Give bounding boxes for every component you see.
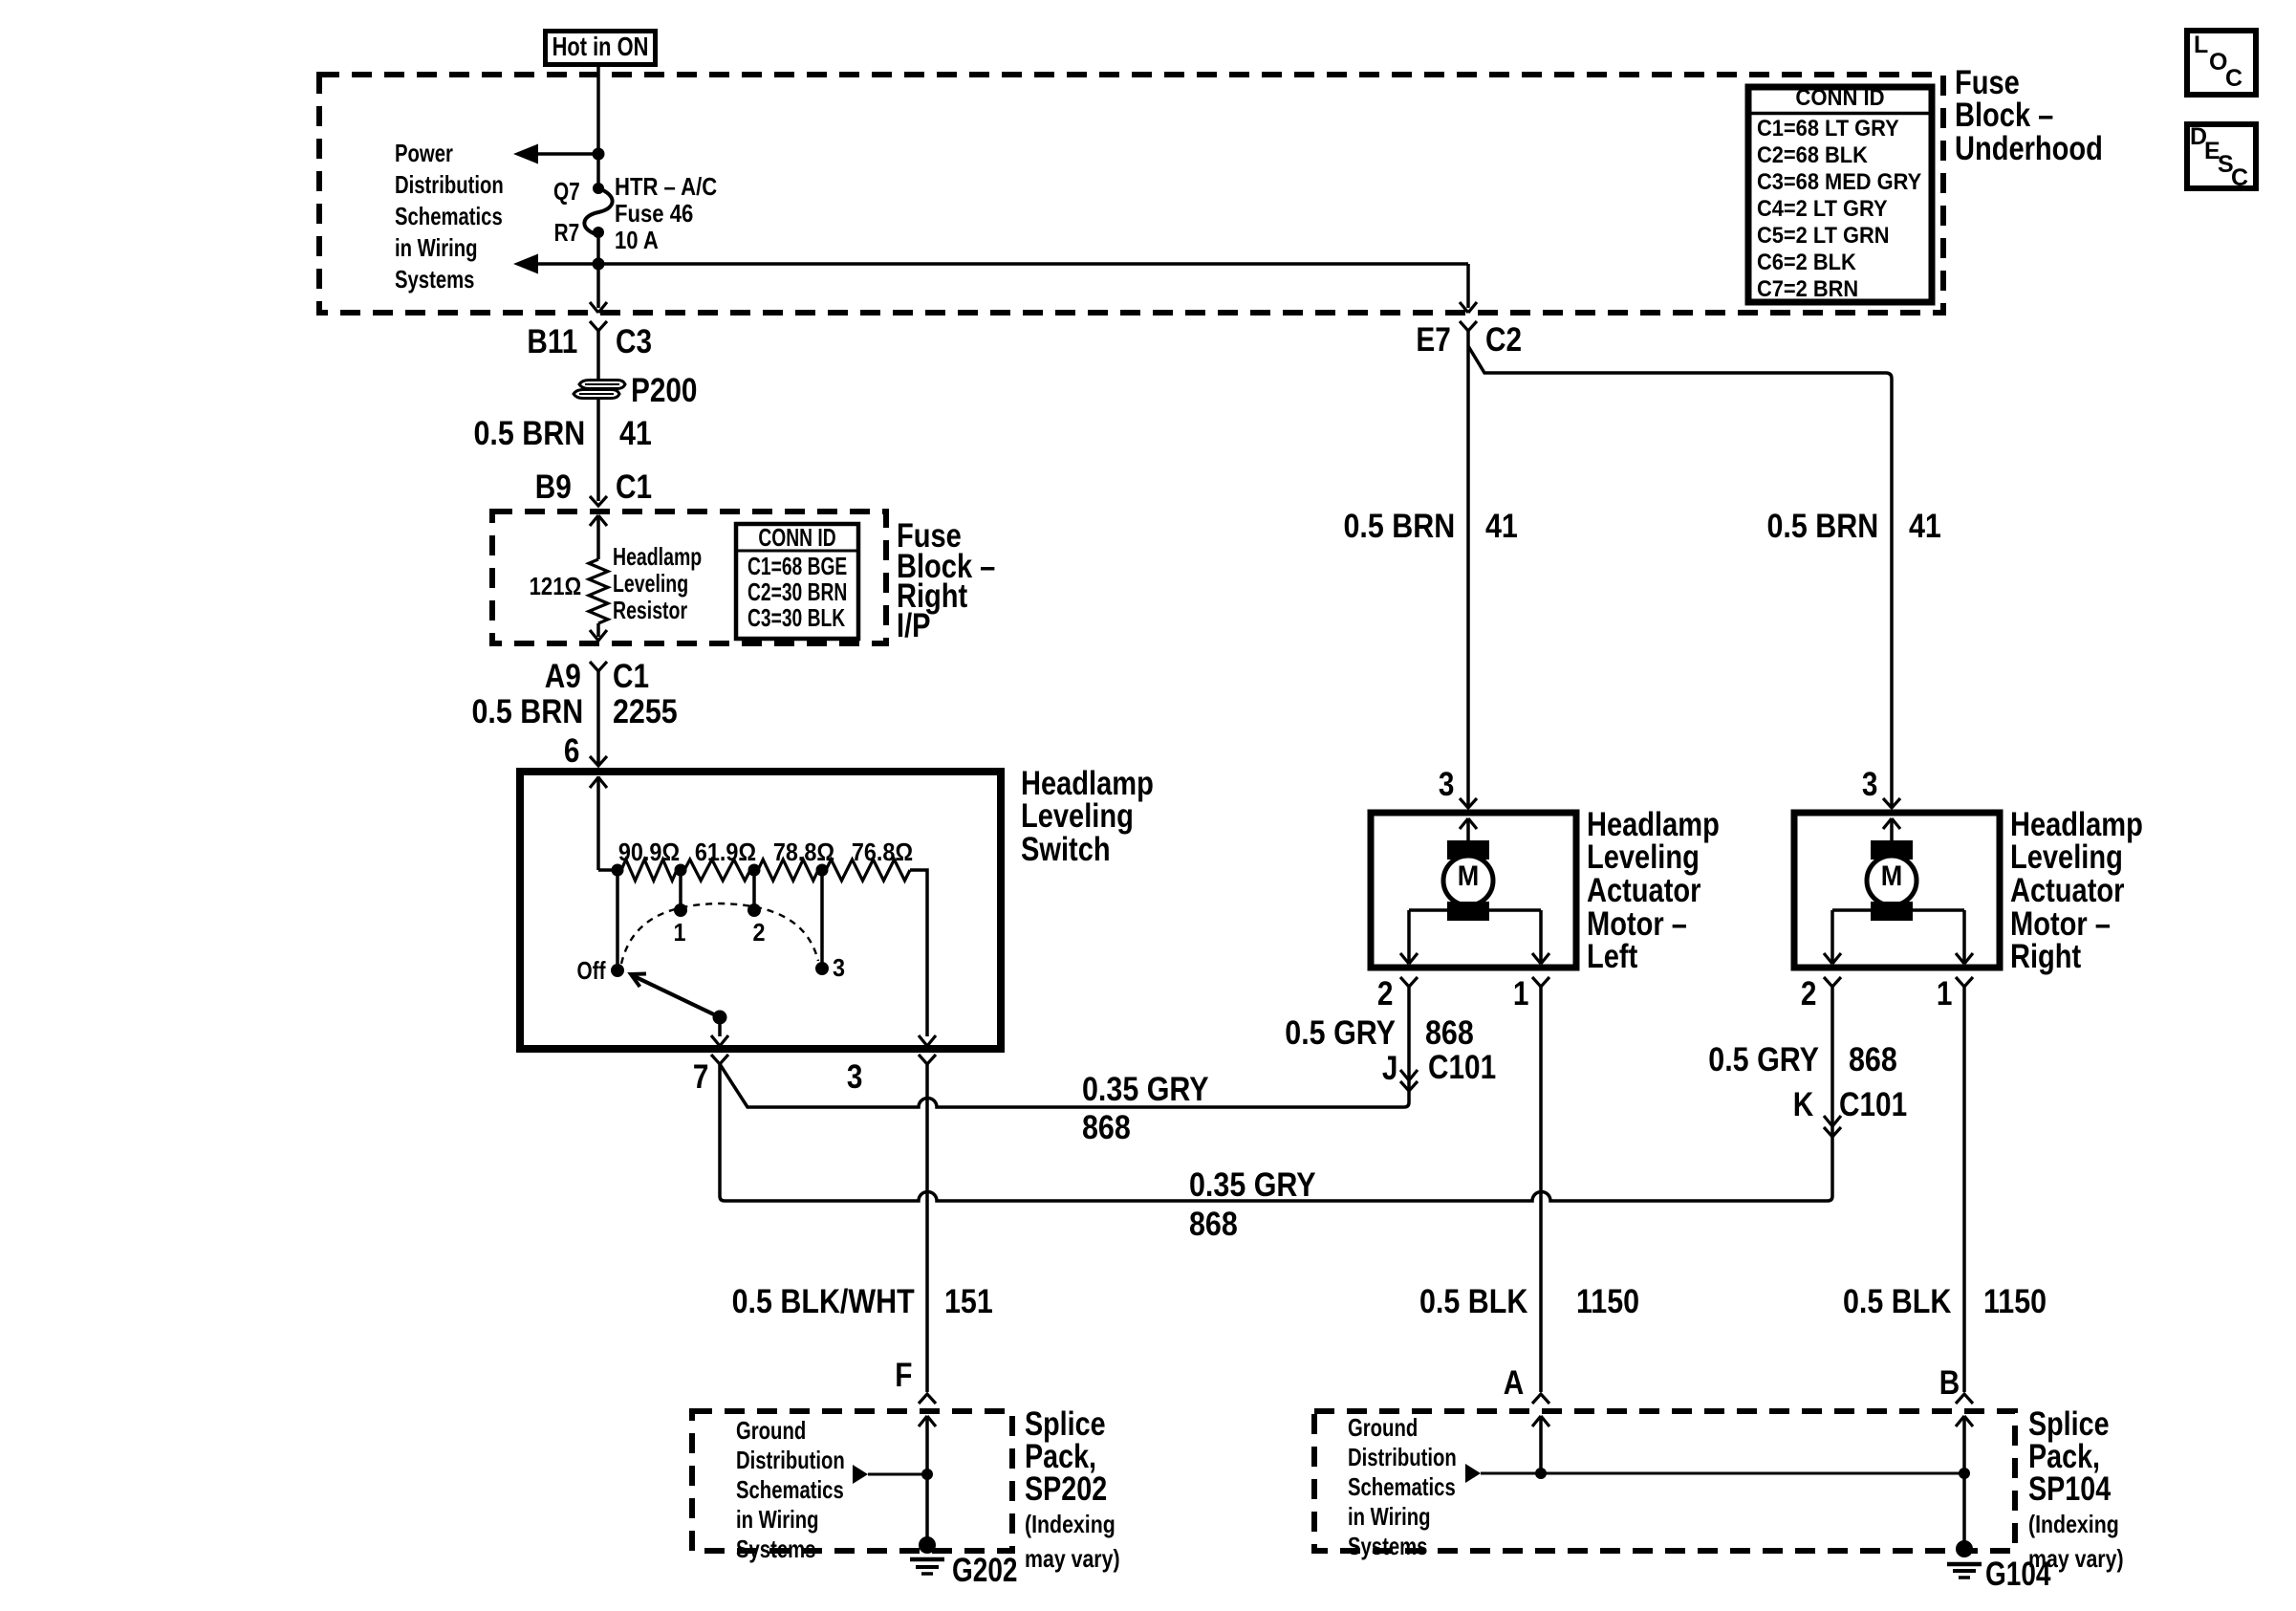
label fuse block right I/P	[897, 521, 995, 641]
tap wire position 1	[679, 870, 682, 910]
label pin E7	[1417, 323, 1451, 357]
label right actuator pin 1	[1936, 977, 1952, 1011]
label resistor 121 ohm	[529, 574, 581, 599]
wire 41 BRN from P200 to B9	[596, 399, 600, 501]
position 1 contact	[674, 903, 687, 917]
wire 1150 BLK right actuator pin 1 to splice pack SP104	[1962, 987, 1966, 1392]
label grommet P200	[631, 374, 697, 407]
label left actuator pin 3	[1438, 768, 1454, 801]
wire from fuse to exit and E7 branch	[596, 232, 600, 308]
label circuit 868 upper	[1082, 1111, 1131, 1144]
headlamp leveling resistor 121 ohm	[596, 515, 600, 559]
switch resistor chain node C	[748, 864, 761, 877]
exit arrow switch pin 7	[711, 1035, 728, 1046]
label wire 0.5 BLK right	[1843, 1285, 1951, 1318]
connector A9/C1 chevron	[590, 662, 607, 671]
wire from Hot in ON down into fuse block	[596, 67, 600, 186]
label wire 0.5 BRN left motor	[1343, 510, 1455, 543]
entry arrow A into SP104	[1532, 1416, 1549, 1426]
switch resistor chain node D	[816, 864, 829, 877]
connector chevron at F entry SP202	[919, 1394, 936, 1404]
label power distribution schematics in wiring systems	[395, 138, 504, 295]
label headlamp leveling resistor	[613, 543, 702, 623]
switch resistor chain node B	[675, 864, 687, 877]
connector chevron below switch pin 7	[711, 1055, 728, 1064]
label ground distribution schematics SP202	[736, 1416, 845, 1564]
label circuit 41 right motor	[1909, 510, 1941, 543]
label right actuator pin 2	[1800, 977, 1816, 1011]
exit arrow switch pin 3	[919, 1035, 936, 1046]
label fuse block underhood	[1955, 67, 2103, 166]
label motor M right	[1866, 862, 1917, 891]
SP104 wire from A to bus	[1539, 1416, 1543, 1473]
label wire 0.5 BRN right motor	[1766, 510, 1878, 543]
headlamp leveling actuator motor left (box, motor M, pins 3/2/1)	[1371, 813, 1576, 968]
arrow to power distribution schematics (lower)	[538, 262, 598, 266]
label wire 0.5 BRN (top)	[473, 417, 585, 450]
switch resistor 76.8 ohm	[826, 860, 910, 881]
label splice B	[1939, 1366, 1960, 1400]
label headlamp leveling switch	[1021, 768, 1154, 867]
wire across fuse block to E7	[598, 262, 1468, 266]
wire 41 BRN from E7 to left actuator pin 3	[1466, 331, 1470, 808]
label fuse terminal Q7	[553, 179, 580, 204]
label DESC box letters	[2190, 125, 2207, 149]
label resistor 76.8 ohm	[624, 839, 1140, 864]
exit arrow from fuse block right I/P	[590, 630, 607, 641]
label splice pack SP202	[1025, 1408, 1120, 1575]
label headlamp leveling actuator motor left	[1587, 809, 1720, 975]
label fuse terminal R7	[553, 220, 579, 245]
label ground distribution schematics SP104	[1348, 1413, 1457, 1561]
switch wiper arm	[632, 975, 720, 1017]
SP104 wire from B to ground G104	[1962, 1416, 1966, 1546]
wiper wire to switch pin 7	[718, 1017, 722, 1036]
arrow to ground distribution schematics SP202	[868, 1473, 927, 1476]
label pin B11	[527, 325, 577, 359]
label splice pack SP104	[2028, 1408, 2124, 1575]
tap wire position 3	[820, 870, 824, 969]
label Hot in ON	[377, 33, 824, 60]
SP202 internal wire to ground G202	[925, 1416, 929, 1542]
connector B11/C3 chevron	[590, 321, 607, 331]
label connector C101 (K)	[1839, 1088, 1907, 1121]
SP104 ground bus wire	[1481, 1472, 1964, 1475]
label connector C101 (J)	[1428, 1051, 1496, 1084]
tap wire position 2	[752, 870, 756, 910]
headlamp leveling switch box	[520, 772, 1001, 1049]
label wire 0.35 GRY upper	[1082, 1073, 1209, 1106]
label circuit 151	[944, 1285, 993, 1318]
grommet P200 symbol	[574, 381, 625, 399]
switch pin 6 internal wire	[596, 776, 600, 870]
LOC reference box	[2187, 31, 2256, 95]
label ground G104	[1985, 1557, 2051, 1591]
connector E7/C2 chevron	[1460, 321, 1477, 331]
headlamp leveling actuator motor right (box, motor M, pins 3/2/1)	[1794, 813, 2000, 968]
label wire 0.5 BRN (2255)	[471, 695, 583, 729]
label circuit 41 (top)	[619, 417, 652, 450]
label wire 0.5 GRY left	[1285, 1016, 1396, 1050]
label Off position	[577, 958, 606, 983]
label circuit 868 lower	[1189, 1208, 1238, 1241]
fuse block underhood dashed outline	[319, 75, 1943, 313]
label circuit 868 right	[1849, 1043, 1897, 1077]
label wire 0.35 GRY lower	[1189, 1168, 1316, 1202]
Off position contact	[611, 964, 624, 977]
label wire 0.5 GRY right	[1708, 1043, 1819, 1077]
connector chevron below switch pin 3	[919, 1055, 936, 1064]
label wire 0.5 BLK left	[1419, 1285, 1527, 1318]
label resistor 61.9 ohm	[467, 839, 984, 864]
wire from resistor chain to switch pin 3	[910, 870, 927, 1036]
label pin B9	[535, 470, 572, 504]
DESC reference box	[2187, 124, 2256, 188]
SP104 junction node A	[1535, 1468, 1547, 1479]
label motor M left	[1442, 862, 1494, 891]
splice pack SP202 dashed outline	[692, 1411, 1012, 1551]
label circuit 1150 right	[1983, 1285, 2047, 1318]
arrow to power distribution schematics (top)	[538, 152, 598, 156]
wire 41 BRN from B11 to P200	[596, 331, 600, 381]
label right actuator pin 3	[1861, 768, 1877, 801]
entry arrow F into SP202	[919, 1416, 936, 1426]
switch resistor 61.9 ohm	[684, 860, 750, 881]
wire 1150 BLK left actuator pin 1 to splice pack SP104	[1539, 987, 1543, 1392]
entry arrow switch pin 6	[590, 777, 607, 788]
label CONN ID header underhood	[1576, 87, 2104, 110]
connector B9/C1 chevron	[590, 496, 607, 506]
connector chevron at B entry SP104	[1956, 1394, 1973, 1404]
connector K/C101 arrow and chevron	[1824, 1116, 1841, 1126]
node at E7 branch junction	[593, 258, 605, 271]
label wire 0.5 BLK/WHT	[732, 1285, 915, 1318]
wiper pivot node	[713, 1011, 727, 1025]
label circuit 868 left	[1425, 1016, 1474, 1050]
label connector C2	[1485, 323, 1522, 357]
label resistor 90.9 ohm	[391, 839, 907, 864]
fuse block right I/P dashed outline	[492, 512, 886, 643]
ground G202 symbol	[919, 1536, 936, 1554]
SP104 junction node B	[1959, 1468, 1970, 1479]
switch resistor 90.9 ohm	[621, 860, 677, 881]
label pin J	[1381, 1052, 1397, 1085]
splice pack SP104 dashed outline	[1314, 1411, 2015, 1551]
position 2 contact	[747, 903, 761, 917]
label connector C1 (A9)	[613, 660, 649, 693]
label pin A9	[545, 660, 581, 693]
label switch pin 7	[692, 1060, 708, 1094]
label LOC box letters	[2194, 33, 2208, 57]
node on feed wire at power distribution tap	[593, 148, 605, 161]
label pin K	[1793, 1088, 1813, 1121]
label CONN ID rows underhood	[1757, 116, 1921, 303]
label position 3	[833, 955, 845, 980]
wire 41 BRN branch to right actuator pin 3	[1468, 346, 1892, 808]
entry arrow into fuse block right I/P	[590, 515, 607, 526]
label ground G202	[952, 1554, 1018, 1587]
label left actuator pin 1	[1512, 977, 1528, 1011]
label position 2	[742, 920, 776, 945]
label fuse HTR A/C Fuse 46 10A	[615, 173, 717, 253]
label CONN ID rows right I/P	[747, 554, 847, 631]
label position 1	[662, 920, 697, 945]
label resistor 78.8 ohm	[546, 839, 1062, 864]
wire 2255 BRN from A9 to switch pin 6	[596, 671, 600, 765]
connector J/C101 arrow and chevron	[1400, 1070, 1418, 1080]
ground G104 symbol	[1956, 1540, 1973, 1557]
label circuit 2255	[613, 695, 678, 729]
switch resistor chain node A	[612, 864, 624, 877]
position 3 contact	[815, 962, 829, 975]
label CONN ID header right I/P	[585, 525, 1009, 550]
arrow to ground distribution schematics SP104	[1465, 1464, 1481, 1483]
label left actuator pin 2	[1376, 977, 1393, 1011]
wire 868 GRY switch pin 7 to left actuator pin 2 (via J C101)	[720, 987, 1409, 1107]
power feed box 'Hot in ON'	[546, 32, 656, 65]
selector travel dashed arc	[621, 903, 818, 964]
label splice F	[895, 1359, 912, 1392]
switch resistor 78.8 ohm	[758, 860, 818, 881]
fuse F46 HTR A/C symbol	[584, 188, 612, 235]
label connector C3	[616, 325, 652, 359]
connector chevron at switch pin 6	[590, 756, 607, 766]
connector chevron at right actuator pin 3	[1883, 798, 1900, 808]
wire 868 GRY switch pin 7 to right actuator pin 2 (via K C101)	[720, 987, 1832, 1201]
wire 151 BLK/WHT switch pin 3 to splice pack SP202	[925, 1064, 929, 1392]
fuse terminal Q7	[593, 183, 604, 194]
connector chevron at left actuator pin 3	[1460, 798, 1477, 808]
connector chevron at A entry SP104	[1532, 1394, 1549, 1404]
tap wire to Off position	[616, 870, 619, 970]
exit arrow B11 at fuse block boundary	[590, 302, 607, 313]
fuse terminal R7	[593, 227, 604, 238]
label connector C1 (B9)	[616, 470, 652, 504]
label circuit 41 left motor	[1485, 510, 1518, 543]
label switch pin 3	[846, 1060, 862, 1094]
exit arrow E7 at fuse block boundary	[1460, 302, 1477, 313]
CONN ID table fuse block underhood	[1748, 87, 1932, 302]
label switch pin 6	[563, 734, 579, 768]
entry arrow B into SP104	[1956, 1416, 1973, 1426]
CONN ID table fuse block right I/P	[736, 524, 858, 639]
SP202 junction node	[921, 1469, 933, 1480]
label splice A	[1504, 1366, 1524, 1400]
label circuit 1150 left	[1576, 1285, 1639, 1318]
label headlamp leveling actuator motor right	[2010, 809, 2143, 975]
